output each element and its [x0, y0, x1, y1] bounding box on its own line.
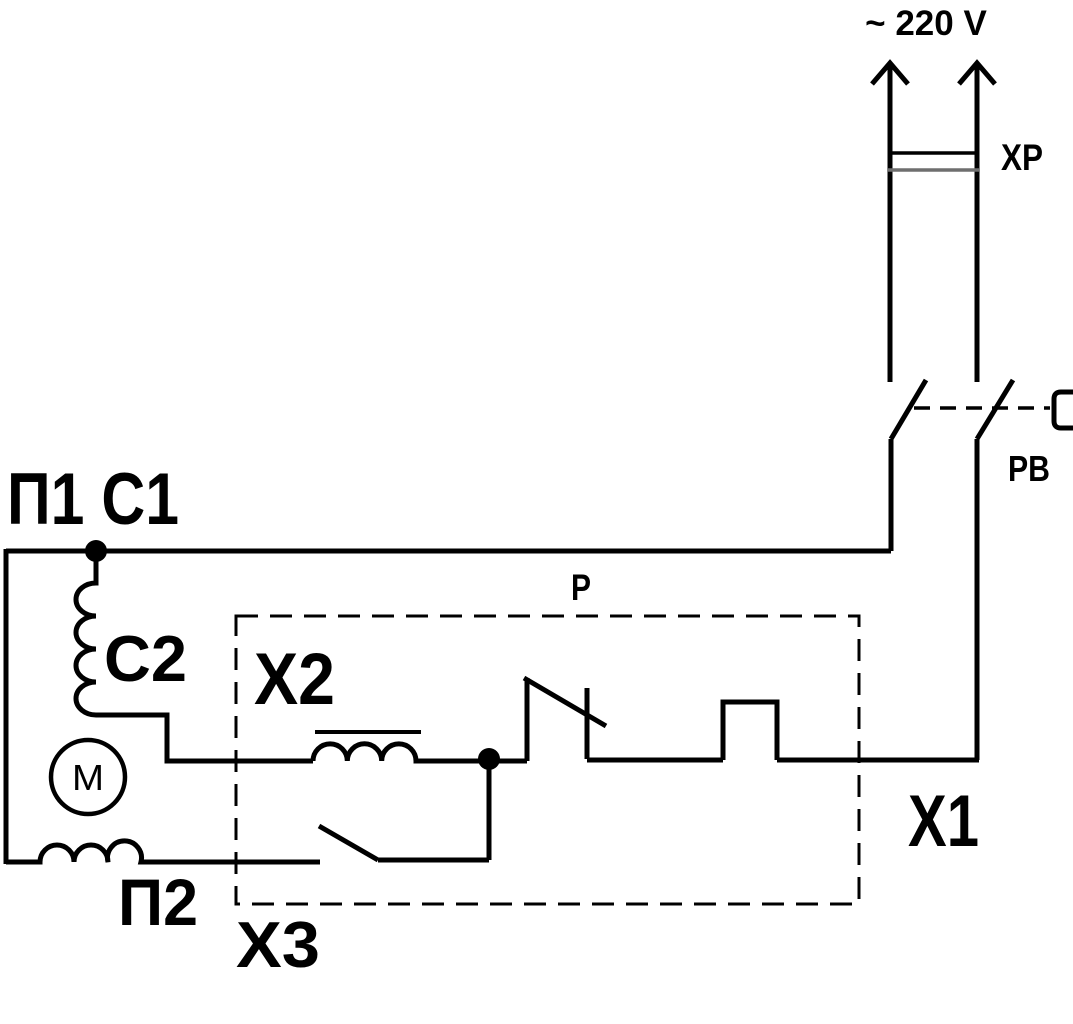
- relay coil X2 winding: [313, 744, 527, 761]
- wire left edge vertical: [4, 549, 9, 864]
- relay coil X2 core bar: [315, 730, 421, 734]
- contact X3 switch blade: [319, 826, 378, 860]
- svg-text:М: М: [72, 757, 104, 798]
- svg-text:П2: П2: [118, 865, 198, 939]
- wire baseline mid: [587, 758, 723, 763]
- motor M: [51, 740, 125, 814]
- svg-text:ХР: ХР: [1001, 137, 1043, 178]
- connector XP plug bars: [888, 151, 979, 155]
- wire baseline right: [777, 758, 979, 763]
- wire pole1 lower: [889, 439, 894, 551]
- svg-text:Х1: Х1: [908, 781, 979, 862]
- wire pole2 lower: [975, 439, 980, 760]
- svg-text:Х2: Х2: [254, 639, 335, 720]
- svg-text:Р: Р: [571, 567, 591, 608]
- wire lower contact right: [378, 858, 489, 863]
- svg-text:С2: С2: [104, 622, 187, 695]
- node junction dot: [478, 748, 500, 770]
- svg-text:Х3: Х3: [236, 908, 320, 981]
- mechanical link dashed: [914, 406, 1050, 410]
- switch PB pole 2 blade: [977, 380, 1013, 439]
- switch PB pole 1 blade: [891, 380, 926, 439]
- thermal contact fixed pin: [585, 688, 590, 759]
- svg-text:РВ: РВ: [1008, 448, 1050, 489]
- winding C2 (starting coil, vertical): [76, 551, 96, 715]
- wire L2 feeder (right supply line with arrow): [959, 63, 995, 382]
- relay P dashed box: [236, 616, 859, 904]
- wire step from C2 to X2: [96, 715, 313, 761]
- node П1/С1 junction dot: [85, 540, 107, 562]
- winding П2 (bottom): [6, 841, 320, 862]
- svg-text:П1 С1: П1 С1: [7, 459, 179, 540]
- actuator bracket: [1054, 392, 1073, 428]
- thermal contact riser: [525, 678, 530, 761]
- svg-text:~ 220 V: ~ 220 V: [865, 4, 987, 43]
- wire top horizontal bus: [6, 549, 891, 554]
- contact bump: [723, 702, 777, 760]
- wire dot to lower contact: [487, 759, 492, 860]
- thermal contact blade: [524, 678, 606, 726]
- wire L1 feeder (left supply line with arrow): [872, 63, 908, 382]
